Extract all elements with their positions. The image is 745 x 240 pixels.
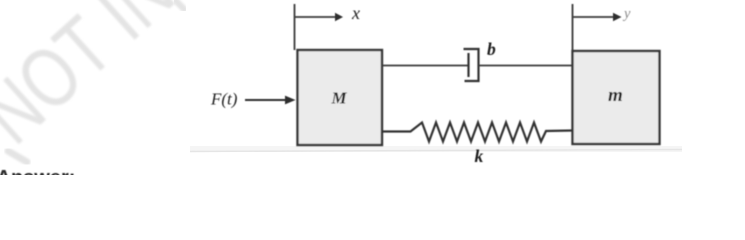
- F(t) arrowhead: [285, 96, 296, 105]
- y arrowhead: [613, 13, 622, 21]
- watermark stroke: right stem tip of top N: [176, 1, 184, 9]
- faint scan line: [190, 150, 682, 152]
- damper piston: [467, 53, 469, 77]
- y reference vertical line: [572, 4, 574, 51]
- svg-text:x: x: [351, 3, 360, 23]
- spring k (zigzag): [382, 123, 572, 142]
- faint scan band under figure: [190, 146, 682, 152]
- x arrowhead: [335, 13, 343, 21]
- svg-text:k: k: [475, 146, 484, 166]
- x arrow shaft: [295, 16, 337, 18]
- svg-text:NOT IN: NOT IN: [0, 0, 191, 161]
- watermark NOT IN (diagonal light-gray condensed): [0, 0, 191, 161]
- mass m box: [573, 51, 660, 144]
- mass M box: [298, 50, 383, 145]
- y arrow shaft: [573, 16, 615, 18]
- F(t) arrow shaft: [245, 99, 287, 101]
- svg-text:y: y: [622, 6, 631, 22]
- damper left rod (wire): [382, 65, 468, 67]
- svg-text:M: M: [331, 89, 348, 108]
- svg-text:F(t): F(t): [210, 90, 238, 109]
- x reference vertical line: [294, 4, 296, 50]
- damper cylinder: [464, 49, 479, 81]
- watermark partial letter corner (bottom-left): [8, 151, 27, 162]
- svg-text:b: b: [487, 39, 496, 59]
- damper right rod (wire): [479, 65, 573, 67]
- svg-text:Answer:: Answer:: [0, 167, 75, 175]
- svg-text:m: m: [608, 85, 623, 106]
